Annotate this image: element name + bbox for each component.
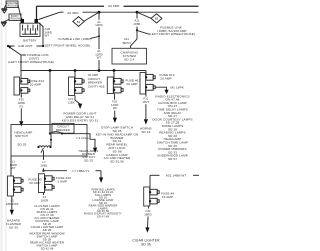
ground (engine)	[2, 9, 8, 13]
svg-text:18VT: 18VT	[142, 100, 149, 104]
node on A1 wire	[98, 35, 100, 37]
svg-text:A0 6RD: A0 6RD	[67, 11, 79, 15]
arrow to horns	[144, 119, 148, 124]
svg-text:2 AMP: 2 AMP	[58, 179, 68, 183]
svg-text:(LEFT FRONT WHEEL HOUSE): (LEFT FRONT WHEEL HOUSE)	[44, 43, 91, 47]
svg-text:A1: A1	[97, 20, 101, 24]
headlamp switch box	[11, 125, 87, 157]
wire L1 output (left)	[10, 156, 12, 177]
label FUSE #14 20 AMP	[29, 79, 44, 87]
label A1B 16RD WT	[45, 27, 53, 37]
svg-text:SD 16: SD 16	[141, 130, 150, 134]
node rail x99	[98, 69, 101, 72]
svg-text:A31 14BK/WT: A31 14BK/WT	[166, 173, 187, 177]
svg-text:18RD: 18RD	[144, 212, 152, 216]
svg-text:SD 47,48: SD 47,48	[97, 214, 110, 218]
fuse F17 drop wire	[113, 71, 115, 80]
svg-text:SD 57: SD 57	[168, 157, 177, 161]
svg-text:F20: F20	[19, 98, 24, 102]
svg-text:SD 36: SD 36	[141, 242, 151, 246]
svg-text:15 AMP: 15 AMP	[162, 195, 173, 199]
svg-text:20 AMP: 20 AMP	[126, 82, 137, 86]
ref text cluster lamps block	[29, 204, 65, 251]
svg-text:12BK: 12BK	[68, 101, 75, 105]
arrow to stop lamp switch refs	[113, 118, 117, 123]
ref text cigar lighter	[132, 239, 160, 247]
label A1 12RD WT (lower)	[95, 49, 104, 60]
svg-text:FUSIBLE LINK (16BK): FUSIBLE LINK (16BK)	[59, 37, 92, 41]
label FUSE #13 20 AMP	[160, 73, 175, 81]
ref text power door light	[62, 111, 99, 122]
scan fold artifact left edge	[5, 0, 7, 251]
wire A31 feed (right)	[150, 174, 160, 176]
label headlamp switch	[15, 130, 33, 146]
svg-text:18RD/WT: 18RD/WT	[6, 202, 19, 206]
fuse F13 drop wire	[145, 71, 147, 75]
fuse #10	[39, 174, 55, 193]
svg-text:SD 91,96: SD 91,96	[110, 160, 124, 164]
wire to splice S1	[84, 12, 99, 21]
svg-text:A11: A11	[134, 19, 139, 23]
A11 wire to charging system	[133, 12, 142, 30]
svg-text:BREAKER: BREAKER	[56, 128, 70, 132]
svg-text:WT: WT	[11, 166, 16, 170]
battery	[20, 23, 40, 36]
wire engine ground to battery negative	[18, 5, 22, 19]
svg-text:L7: L7	[42, 160, 46, 164]
svg-text:M1 18PK: M1 18PK	[171, 85, 184, 89]
svg-text:14RD: 14RD	[10, 163, 18, 167]
svg-text:20 AMP: 20 AMP	[160, 77, 171, 81]
wire Z1 down	[43, 193, 45, 196]
ref text hazard flasher	[6, 218, 22, 229]
node A1B left (fusible link splice)	[7, 45, 9, 47]
ref text horns	[140, 126, 152, 134]
wire A11 down to charging system	[131, 30, 138, 48]
svg-text:F34: F34	[145, 209, 150, 213]
wire corner down to parking lamps	[100, 171, 102, 178]
leader arrow to A1B node / wire to rail	[9, 47, 21, 71]
fusible link callout (A1B)	[8, 53, 54, 64]
svg-text:GROUND: GROUND	[9, 17, 22, 21]
svg-text:L1: L1	[12, 159, 16, 163]
splice S2	[151, 14, 162, 23]
fuse #14	[14, 77, 30, 95]
svg-text:CIRCUIT: CIRCUIT	[88, 77, 100, 81]
splice S1	[73, 17, 84, 27]
svg-text:L1: L1	[11, 198, 15, 202]
leader to A11 fusible link note	[138, 31, 150, 35]
svg-text:A11: A11	[124, 37, 129, 41]
svg-text:GROUND: GROUND	[6, 4, 19, 8]
svg-text:KEYLESS ENTRY SD 31: KEYLESS ENTRY SD 31	[62, 119, 99, 123]
circuit breaker box (inside switch)	[52, 123, 74, 133]
wire battery positive down to A1B node	[39, 23, 44, 47]
arrow into headlamp switch	[19, 121, 23, 126]
breaker element	[49, 132, 63, 135]
svg-text:20BK: 20BK	[133, 22, 140, 26]
node A11	[136, 29, 138, 31]
circuit breaker 30 amp cavity #1B	[69, 77, 85, 96]
fuse #4	[144, 187, 160, 206]
wire F32 down	[113, 94, 115, 118]
svg-text:S1: S1	[77, 21, 81, 24]
arrow to cigar lighter	[145, 227, 149, 232]
wire: bus A0 second run	[60, 11, 64, 13]
svg-text:20 AMP: 20 AMP	[29, 181, 40, 185]
body ground label box	[9, 14, 22, 21]
svg-text:SD 25: SD 25	[84, 158, 93, 162]
arrow to parking lamps	[99, 177, 103, 183]
svg-text:CIRCUIT: CIRCUIT	[57, 124, 69, 128]
label L1 14RD WT	[10, 159, 18, 170]
wire battery positive up to bus A0 (1)	[36, 6, 38, 19]
circuit breaker 30A drop wire	[74, 71, 76, 80]
wire battery positive to bus A0 (2)	[39, 12, 61, 19]
label 30 AMP CIRCUIT BREAKER CAVITY #1B	[88, 73, 105, 88]
label L1 18RD/WT	[6, 198, 19, 206]
wire body ground box to ground symbol	[4, 20, 9, 22]
svg-text:(LEFT FRONT WHEELHOUSE): (LEFT FRONT WHEELHOUSE)	[8, 60, 54, 64]
svg-text:WT: WT	[45, 34, 50, 38]
switch contacts inside headlamp switch	[37, 134, 52, 153]
label F21 12BK	[68, 97, 75, 105]
leader to A1 fusible link	[90, 36, 99, 38]
svg-text:WT: WT	[97, 56, 102, 60]
svg-text:(LEFT FRONT WHEELHOUSE): (LEFT FRONT WHEELHOUSE)	[149, 32, 195, 36]
arrow to headlamps dimmer switch	[93, 148, 97, 153]
wire: bus A0 top run	[37, 5, 105, 7]
arrow to power door light	[78, 104, 82, 109]
ref text parking lamps block	[84, 187, 122, 218]
svg-text:SD 42,48: SD 42,48	[41, 247, 54, 251]
label F34 18RD	[144, 209, 153, 217]
svg-text:18OR: 18OR	[41, 199, 49, 203]
fusible link callout (A11)	[149, 26, 195, 37]
battery positive terminal	[35, 19, 39, 23]
svg-text:BR/GY: BR/GY	[123, 41, 132, 45]
wire body ground to battery negative	[21, 18, 23, 20]
svg-text:L3 14LG: L3 14LG	[77, 136, 90, 140]
label L7 18BL	[40, 160, 48, 168]
label FUSE #3 20 AMP	[29, 177, 42, 185]
wire L7 to parking lamps	[44, 170, 68, 172]
label Z1 18OR	[41, 195, 49, 203]
ground (body)	[1, 22, 7, 26]
fuse #13	[140, 73, 155, 95]
svg-text:F21: F21	[68, 97, 73, 101]
wire F11 down to horns	[145, 90, 147, 119]
svg-text:SWITCH: SWITCH	[15, 134, 28, 138]
svg-text:F11: F11	[143, 97, 148, 101]
engine ground label box	[6, 1, 19, 8]
wire A1 feed to headlamp switch breaker	[49, 71, 51, 134]
wire F20 to headlamp switch	[20, 93, 22, 121]
wire M1 to radio electronics refs	[155, 87, 166, 90]
label A11 BR/GY	[123, 37, 132, 45]
label F20 18RD R2	[17, 98, 25, 109]
svg-text:SD 25: SD 25	[17, 142, 26, 146]
svg-text:A0 6RD: A0 6RD	[108, 4, 120, 8]
label FUSE #4 15 AMP	[161, 191, 174, 199]
ref text headlamps dimmer switch	[79, 149, 99, 162]
battery negative terminal	[21, 19, 25, 23]
label A1 12RD (upper)	[95, 20, 103, 27]
ref text stop lamp switch block	[96, 126, 139, 164]
svg-text:BREAKER: BREAKER	[88, 81, 102, 85]
wire to splice S2	[137, 12, 151, 18]
node L7 tee	[42, 170, 44, 172]
svg-text:F32: F32	[112, 100, 117, 104]
fusible link callout (A1)	[44, 37, 92, 47]
svg-text:A1B 20VT: A1B 20VT	[18, 44, 33, 48]
wire: distribution rail	[21, 70, 146, 72]
wire corner down to fuse #4	[149, 175, 151, 190]
arrow to hazard flasher	[10, 210, 14, 215]
svg-text:BATTERY: BATTERY	[23, 38, 36, 42]
node rail x75	[74, 69, 77, 72]
label FUSE #10 2 AMP	[56, 176, 71, 184]
fuse #3 (left output)	[8, 176, 24, 196]
wire L7 output from switch	[43, 151, 45, 171]
wire engine ground box to ground symbol	[4, 5, 6, 9]
label FUSE #17 20 AMP	[126, 79, 141, 87]
svg-text:R2: R2	[20, 104, 24, 108]
label F32 14RD D8	[110, 100, 119, 111]
wire F34 to cigar lighter	[148, 206, 149, 227]
arrow into radio refs	[165, 90, 169, 94]
charging system box U1	[112, 48, 147, 64]
wire A1 vertical (bus to rail)	[98, 12, 100, 70]
node at bus/A1 drop	[98, 11, 101, 14]
label F11 18VT	[142, 97, 151, 105]
svg-text:18BL: 18BL	[41, 163, 48, 167]
svg-text:Z1: Z1	[43, 195, 47, 199]
fuse F14 drop wire	[20, 71, 22, 80]
svg-text:D8: D8	[113, 106, 117, 110]
ref text radio electronics block	[152, 94, 192, 161]
svg-text:SD 36: SD 36	[9, 225, 18, 229]
svg-text:30 AMP: 30 AMP	[88, 73, 98, 77]
svg-text:CAVITY #1B: CAVITY #1B	[88, 84, 105, 88]
svg-text:L7 18BL/YL: L7 18BL/YL	[72, 169, 89, 173]
node A1B right	[42, 45, 44, 47]
wire to hazard flasher	[11, 196, 13, 210]
node rail x114	[113, 69, 116, 72]
svg-text:SD 2,4: SD 2,4	[124, 58, 134, 62]
svg-text:20 AMP: 20 AMP	[30, 82, 41, 86]
svg-text:S2: S2	[155, 18, 159, 21]
node at bus/A11 drop	[136, 11, 139, 14]
svg-text:12RD: 12RD	[95, 23, 103, 27]
wire F21 down	[75, 96, 80, 105]
wire breaker to L3 output	[62, 134, 95, 148]
node rail x50	[49, 69, 52, 72]
fuse #17	[107, 77, 123, 94]
wire A1B horizontal	[8, 45, 15, 47]
